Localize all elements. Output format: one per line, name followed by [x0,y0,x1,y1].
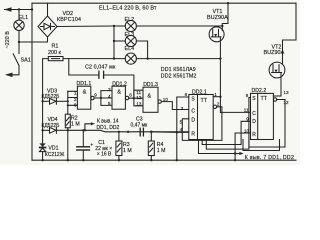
svg-text:R: R [191,131,195,137]
flip-flop DD2.2 [251,93,277,139]
diode VD4 [43,127,68,133]
flip-flop DD2.1 [189,95,217,140]
svg-text:C2 0,047 мк: C2 0,047 мк [85,64,116,70]
svg-text:5: 5 [108,101,111,106]
wire: DD2.1 Q stub to VT1 column [213,96,220,98]
svg-text:EL3: EL3 [125,32,135,38]
wire: DD2.2 Qbar loop [249,100,285,148]
node: K vyv 7 junction [234,152,236,154]
svg-text:BUZ90A: BUZ90A [264,50,285,56]
svg-text:3: 3 [181,106,184,111]
node: R4 bottom rail [150,159,152,161]
node: input bus bottom [67,104,69,106]
svg-text:&: & [83,90,87,96]
lamp EL1 [14,20,24,30]
node: VT1 drain on rail [227,2,229,4]
capacitor C1 polar [77,130,90,160]
bridge rectifier VD2 [38,16,57,37]
node: VT1 source junction [219,57,221,59]
svg-text:200 к: 200 к [48,50,61,56]
svg-text:13: 13 [136,101,142,106]
diode VD3 [43,98,68,104]
svg-text:1 М: 1 М [157,148,166,154]
svg-text:TT: TT [261,96,268,102]
wire: DD1.3 out to DD2.1 C [161,102,188,110]
gate DD1.3 [143,87,161,112]
gate DD1.2 [112,86,129,109]
wire: bridge bottom vertex to SA1 junction [19,37,48,42]
wire: DD2.2 under-box hook [243,140,280,151]
wire: R1 left to left column [43,59,49,161]
svg-text:6: 6 [129,93,132,98]
node: EL3 drop junction [146,57,148,59]
node: input bus VD3 [67,100,69,102]
node: VD3 junction [41,100,43,102]
wire: DD1.1 input bus [67,91,69,114]
svg-text:D: D [252,119,256,125]
transistor VT1 [209,3,228,112]
node: DD1.3 input junction [133,97,135,99]
svg-text:1 М: 1 М [123,148,132,154]
svg-text:× 16 В: × 16 В [97,151,112,157]
wire: DD2.1 R row [151,131,189,134]
svg-text:DD1.2: DD1.2 [112,81,127,87]
svg-text:8: 8 [74,103,77,108]
wire: DD2.2 S feed loop [206,98,250,150]
wire: VT1 column to DD2.2 C [220,111,250,113]
wire: EL3 right to bus drop [136,41,147,59]
wire: DD2.1 S stub and tie to rail [177,97,189,160]
node: EL2 drain junction [221,25,223,27]
svg-text:+: + [90,142,93,148]
svg-text:D: D [191,118,195,124]
node: rail at 67.8 [67,159,69,161]
svg-text:11: 11 [244,107,249,112]
svg-text:C: C [252,111,256,117]
wire: EL1 vertical top [18,10,20,21]
svg-text:DD1.3: DD1.3 [143,82,158,88]
node: junction bridge-bottom wire [18,41,20,43]
node: VT1 gate junction [219,96,221,98]
svg-text:8: 8 [246,93,249,98]
wire: DD2.1 bottom to K vyv 7 node [199,140,236,154]
node: R4 top [150,131,152,133]
wire: supply bus to C3 row [68,130,189,132]
node: mains junction at column L [31,8,33,10]
svg-text:1: 1 [74,90,77,95]
svg-text:DD1, DD2: DD1, DD2 [97,125,120,131]
resistor R1 [48,57,63,61]
svg-text:DD2 К561ТМ2: DD2 К561ТМ2 [161,73,197,79]
resistor R4 [148,132,154,160]
wire: R2 node drop to rail [67,130,69,160]
wire: DD1.2 out to DD1.3 inputs [129,90,143,106]
wire: main horizontal bus y58.6 [63,58,220,60]
svg-text:КД522Б: КД522Б [42,94,61,100]
lamp EL2 [114,20,136,31]
svg-text:EL1–EL4 220 В, 60 Вт: EL1–EL4 220 В, 60 Вт [99,6,157,12]
svg-text:TT: TT [201,98,208,104]
svg-text:R1: R1 [52,44,59,50]
wire: DD1.1 out to DD1.2 inputs [94,91,112,106]
node: S tie at rail [176,159,178,161]
switch SA1 [5,54,19,77]
svg-text:C: C [191,109,195,115]
svg-text:EL1: EL1 [19,15,29,21]
svg-text:12: 12 [136,95,142,100]
svg-text:SA1: SA1 [21,58,31,64]
svg-text:&: & [147,93,151,99]
node: VD4 junction [41,129,43,131]
gate DD1.1 [77,86,94,109]
svg-text:R: R [252,132,256,138]
node: rail at 235 [234,159,236,161]
lamp EL4 [125,53,136,64]
svg-text:DD2.2: DD2.2 [252,88,267,94]
wire: DD1.1 pin stubs [68,91,78,105]
node: C3 left [127,131,129,133]
node: R3 top [118,131,120,133]
node: DD1.2 input junction [100,97,102,99]
svg-text:DD2.1: DD2.1 [192,89,207,95]
node: VD1 bottom rail [41,159,43,161]
transistor VT2 [269,62,285,96]
wire: bottom rail [32,159,296,161]
node: R3 bottom rail [118,159,120,161]
svg-text:КД522Б: КД522Б [42,123,61,129]
wire: EL1 bottom to SA1 [18,31,20,54]
svg-text:VD1: VD1 [48,146,58,152]
svg-text:6: 6 [185,92,188,97]
svg-text:4: 4 [108,94,111,99]
wire: DD2.1 D stub and feedback loop [182,107,222,141]
svg-text:DD1.1: DD1.1 [77,81,92,87]
resistor R2 [65,114,70,130]
wire: top rail [32,2,296,4]
wire: DD2.2 Q to VT2 [273,95,281,97]
wire: DD2.2 R feed [235,133,250,154]
svg-text:EL4: EL4 [125,46,135,52]
svg-text:EL2: EL2 [125,17,135,23]
svg-text:1 М: 1 М [71,121,80,127]
zener VD1 [39,143,45,151]
node: S tie at R row [176,131,178,133]
svg-text:К выв. 7 DD1, DD2: К выв. 7 DD1, DD2 [245,155,294,161]
svg-text:КВРС104: КВРС104 [57,17,81,23]
svg-text:0,47 мк: 0,47 мк [131,122,149,128]
resistor R3 [116,132,122,160]
wire: bridge right vertex to lamp bus [57,25,114,28]
node: lamp bus bottom [113,57,115,59]
svg-text:3: 3 [108,87,111,92]
node: R2 bottom [67,129,69,131]
wire: bridge top vertex to rail [47,3,49,16]
svg-text:5: 5 [180,119,183,124]
svg-text:DD1 К561ЛА9: DD1 К561ЛА9 [161,67,196,73]
wire: K vyv 7 drop to rail [234,154,236,161]
wire: EL2 to VT1 drain line [136,25,222,27]
svg-text:К выв. 14: К выв. 14 [97,119,119,125]
wire: lamp bus vertical [113,26,115,59]
wire: DD2.2 D feed loop [202,121,250,144]
svg-text:13: 13 [283,90,289,95]
capacitor C2 [69,59,134,99]
node: junction EL1 top [18,8,20,10]
wire: corner from mains to top rail and left neutral column [31,3,33,160]
node: lamp bus EL3 [113,40,115,42]
node: pin14 stub junction [84,129,86,131]
svg-text:9: 9 [94,93,97,98]
wire: K vyv 7 arrow [235,153,240,155]
svg-text:12: 12 [283,100,289,105]
svg-text:2: 2 [74,97,77,102]
wire: pin14 arrow stub [85,124,92,131]
node: lamp bus top [113,25,115,27]
capacitor C3 [140,128,143,136]
node: C1 top [82,129,84,131]
node: C1 bottom rail [82,159,84,161]
svg-text:&: & [117,90,121,96]
svg-text:~220 В: ~220 В [5,31,11,49]
svg-text:BUZ90A: BUZ90A [207,15,228,21]
svg-text:КС212Ж: КС212Ж [45,152,65,158]
wire: top rail right drop to VT2 [283,3,297,65]
wire: mains top input with arrow [4,7,32,12]
node: C3 right [150,131,152,133]
svg-text:10: 10 [244,128,250,133]
svg-text:2: 2 [217,102,220,107]
lamp EL3 [114,35,136,46]
